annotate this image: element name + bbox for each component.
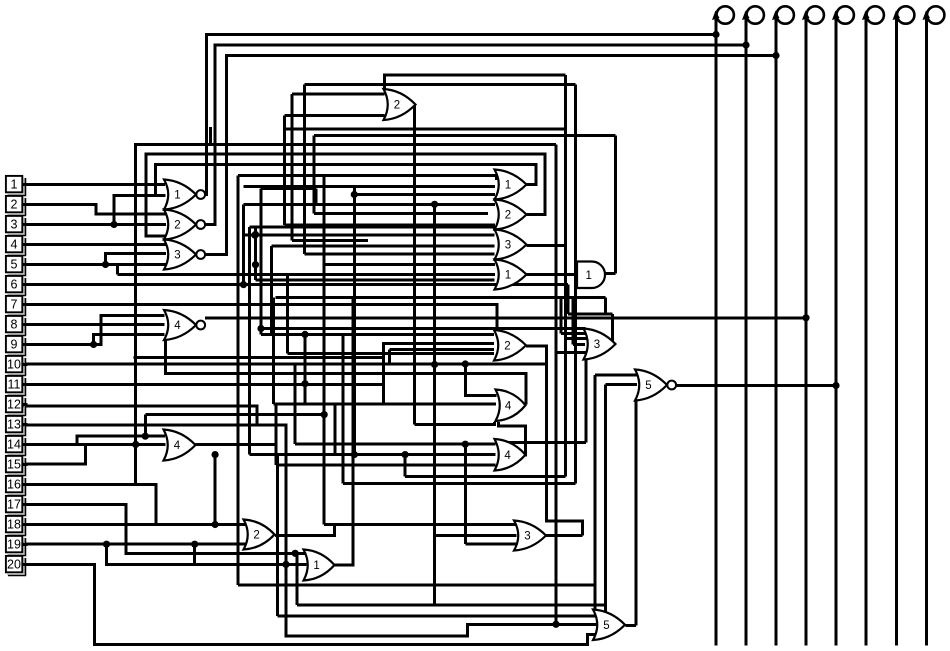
wire row to B2 d	[250, 225, 496, 228]
svg-text:15: 15	[7, 458, 21, 472]
input pin 14	[6, 436, 28, 456]
wire riser x255	[254, 227, 257, 280]
wire J3 input 3	[465, 542, 516, 545]
wire riser x292	[291, 94, 294, 241]
wire input 7 to OR2D top stub	[23, 305, 497, 330]
OR gate 5 bottom	[593, 610, 625, 641]
wire J3 input 1 row	[335, 523, 517, 526]
NOR gate 4 left bank	[164, 310, 205, 340]
svg-text:1: 1	[11, 178, 18, 192]
wire G4 output to F4 stub	[498, 422, 525, 457]
svg-text:3: 3	[524, 531, 530, 543]
wire input 17 to OR1b	[23, 505, 307, 554]
input pin 1	[6, 176, 28, 196]
wire NOR2 output to terminal 2	[205, 45, 746, 225]
svg-text:20: 20	[7, 558, 21, 572]
svg-text:6: 6	[11, 278, 18, 292]
svg-text:4: 4	[505, 400, 512, 412]
AND gate 1	[577, 262, 605, 289]
wire stub x210	[209, 127, 212, 144]
wire row y84	[305, 83, 576, 86]
svg-text:1: 1	[586, 270, 592, 282]
wire input 13 chain to OR5 input 4	[23, 425, 598, 636]
svg-text:2: 2	[394, 100, 400, 112]
wire riser x316	[315, 189, 318, 205]
wire riser x354	[353, 187, 356, 455]
input pin 13	[6, 416, 28, 436]
wire NOR5 input 2	[606, 383, 638, 386]
wire riser x275 lower	[274, 404, 277, 465]
svg-text:2: 2	[253, 530, 259, 542]
wire OR5 output	[626, 624, 637, 627]
wire A2 input 2	[285, 114, 385, 117]
wire input 18 to OR2b	[23, 523, 246, 526]
wire input 8 to NOR4	[23, 323, 165, 326]
junction riser x255 a	[252, 231, 259, 238]
junction OR1b input 1	[292, 550, 299, 557]
wire input 4 to NOR3	[23, 243, 166, 246]
wire riser x595 to OR5 stub	[594, 375, 597, 610]
wire row G4 input 1	[295, 443, 496, 446]
svg-text:1: 1	[174, 190, 180, 202]
junction row B2 at x434	[431, 201, 438, 208]
wire drop x465 to J3	[464, 444, 467, 544]
wire NOR5 bottom stub	[635, 400, 638, 626]
svg-text:18: 18	[7, 518, 21, 532]
junction row B3	[251, 232, 258, 239]
svg-text:10: 10	[7, 358, 21, 372]
svg-text:9: 9	[11, 338, 18, 352]
junction riser x261	[257, 325, 264, 332]
junction terminal 3	[772, 52, 779, 59]
OR gate 3 bank D	[584, 329, 616, 360]
wire row y144 to bus x135	[136, 145, 556, 485]
wire NOR4 output to terminal 4	[205, 316, 806, 319]
wire OR3D input 3	[573, 343, 585, 346]
junction terminal 1	[712, 31, 719, 38]
wire drop x215	[214, 455, 217, 525]
output terminal 5	[832, 6, 854, 645]
wire input 2 step to NOR2	[23, 205, 166, 215]
wire jog y314	[568, 312, 613, 315]
wire row to B4 b	[118, 273, 496, 276]
wire row to B1 a	[244, 185, 496, 188]
wire input 14 branch to OR4 input 1	[77, 436, 165, 444]
wire row to B2 a	[244, 203, 496, 206]
input pin 9	[6, 336, 28, 356]
junction input 11 at x305	[301, 380, 308, 387]
wire input 12 step	[23, 406, 257, 425]
wire row y476	[405, 475, 565, 478]
wire row y357	[134, 358, 384, 404]
wire link x389	[388, 349, 391, 364]
wire riser x314	[313, 136, 316, 214]
wire riser x243	[242, 204, 245, 284]
wire riser x304	[303, 85, 306, 254]
wire into OR3D input 2	[566, 337, 587, 340]
OR gate 2 bank B	[495, 200, 527, 230]
wire K1 output riser	[335, 297, 353, 565]
svg-text:1: 1	[505, 180, 511, 192]
input pin 10	[6, 356, 28, 376]
wire F4 input 1	[465, 364, 496, 395]
svg-text:16: 16	[7, 478, 21, 492]
NOR gate 1 left bank	[164, 180, 205, 210]
junction terminal 5	[832, 382, 839, 389]
wire input 20 chain to OR5 input 5	[23, 564, 598, 644]
junction x215 top	[212, 451, 219, 458]
input pin 16	[6, 476, 28, 496]
wire G4 top stub	[496, 440, 499, 443]
wire I2 output riser x324	[323, 175, 326, 525]
OR gate 1b bank B	[495, 260, 527, 290]
junction riser x255 b	[252, 261, 259, 268]
wire input 10	[23, 363, 547, 366]
wire J3 input 2 row	[435, 534, 517, 537]
svg-text:3: 3	[505, 240, 511, 252]
wire input 5 branch to NOR3	[106, 254, 167, 265]
wire riser x294	[293, 364, 296, 444]
wire OR3D input 1	[561, 332, 585, 335]
output terminal 7	[893, 6, 915, 645]
output terminal 6	[862, 6, 884, 645]
wire input 11 to OR2D in2	[23, 344, 494, 385]
wire input 19 branch to OR1b	[107, 544, 307, 564]
OR gate 3 bottom mid	[514, 521, 546, 551]
wire input 6	[23, 283, 568, 286]
wire input 15 step	[23, 444, 85, 464]
wire row to D2 in4	[287, 352, 493, 355]
OR gate 2 bottom left	[244, 520, 275, 550]
wire input 19 to OR2b	[23, 543, 246, 546]
wire drop x605 upper	[604, 297, 607, 314]
svg-text:12: 12	[7, 398, 21, 412]
wire F4 input 2 row	[274, 402, 496, 405]
wire input 9 branch to NOR4	[94, 335, 165, 345]
wire drop x605 lower	[604, 385, 607, 612]
junction terminal 4	[802, 314, 809, 321]
svg-text:5: 5	[645, 380, 651, 392]
wire input 3 branch to NOR1	[114, 196, 166, 225]
junction bus x135 on OR4 input	[132, 441, 139, 448]
wire input 9 step to NOR4	[23, 316, 165, 345]
wire NOR3 output to terminal 3	[205, 56, 776, 255]
wire drop x405	[404, 455, 407, 477]
input pin 2	[6, 196, 28, 216]
svg-text:1: 1	[313, 560, 319, 572]
OR gate 1 bottom	[304, 550, 335, 581]
wire OR3D bottom stub drop	[585, 360, 588, 443]
wire long left riser x238	[237, 176, 240, 586]
wire input 16 to OR2b	[23, 484, 246, 524]
input pin 18	[6, 516, 28, 536]
wire row G4 input 2	[250, 453, 496, 456]
wire A2 output drop	[413, 105, 416, 425]
wire AND1 output riser	[614, 136, 617, 274]
wire B1 output loop to NOR1	[156, 165, 536, 196]
output terminal 3	[772, 6, 794, 645]
input pin 15	[6, 456, 28, 476]
wire OR3D output riser	[611, 314, 614, 345]
svg-text:13: 13	[7, 418, 21, 432]
wire riser x261	[260, 189, 263, 335]
wire row to B2 c	[285, 224, 495, 227]
OR gate 2 top	[384, 89, 416, 120]
junction input 5 branch	[102, 261, 109, 268]
wire riser x568	[567, 285, 570, 314]
wire long row y616 to OR5 in3	[277, 615, 598, 618]
input pin 7	[6, 296, 28, 316]
junction G4 row a	[351, 451, 358, 458]
junction input 19 branch	[103, 541, 110, 548]
svg-text:4: 4	[504, 450, 511, 462]
wire input 14 to OR4	[23, 443, 166, 446]
wire riser x343	[342, 335, 345, 484]
wire long bus x556	[555, 145, 558, 625]
NOR gate 2 left bank	[164, 210, 205, 240]
wire bridge y188	[261, 187, 316, 190]
NOR gate 5	[635, 370, 676, 401]
input pin 3	[6, 216, 28, 236]
wire riser x572	[571, 297, 574, 344]
NOR gate 3 left bank	[164, 240, 205, 270]
output terminal 4	[802, 6, 824, 645]
wire riser x575	[574, 85, 577, 484]
wire input 1 to NOR1	[23, 183, 165, 186]
wire B2 output loop to NOR2	[146, 154, 545, 236]
junction input 19 second branch	[191, 541, 198, 548]
wire branch x117	[116, 265, 119, 275]
wire riser x271	[270, 246, 273, 335]
wire NOR1 output to terminal 1	[205, 35, 716, 195]
OR gate 3 bank B	[495, 230, 527, 260]
wire A2 top stub row y75	[385, 75, 566, 90]
svg-text:3: 3	[594, 339, 600, 351]
wire F4 output to NOR4 bottom stub	[166, 340, 527, 405]
wire B3 output	[527, 244, 566, 247]
svg-text:17: 17	[7, 498, 21, 512]
wire row y442 to G4 top stub	[498, 441, 587, 444]
wire input 3 to NOR2	[23, 223, 166, 226]
svg-text:19: 19	[7, 538, 21, 552]
wire OR4 output	[196, 443, 276, 446]
wire B4 output to AND1	[527, 273, 578, 276]
input pin 11	[6, 376, 28, 396]
junction on OR4 input row 1	[142, 433, 149, 440]
junction input 9	[90, 341, 97, 348]
wire AND1 output	[606, 272, 616, 275]
wire drop x277	[276, 455, 279, 617]
junction row D2 in1	[301, 331, 308, 338]
wire NOR5 output to terminal 5	[676, 384, 837, 387]
wire NOR5 input 1	[595, 374, 637, 377]
wire row to B1 b	[354, 193, 495, 196]
wire row to B4 a	[324, 263, 495, 266]
wire row to B3 a	[244, 234, 495, 237]
wire link x194	[193, 544, 196, 564]
svg-text:4: 4	[174, 320, 181, 332]
wire row to D2 in1	[261, 333, 494, 336]
svg-text:2: 2	[504, 340, 510, 352]
wire row G4 input 3	[276, 464, 496, 467]
OR gate 4 bank F	[496, 390, 526, 422]
junction input 18	[212, 521, 219, 528]
OR gate 2 bank D	[494, 330, 526, 361]
junction G4 input 1	[462, 441, 469, 448]
junction input 10 at x434	[431, 361, 438, 368]
junction row y414 at I2 riser	[321, 411, 328, 418]
wire drop x305	[304, 334, 307, 403]
svg-text:1: 1	[505, 270, 511, 282]
svg-text:2: 2	[11, 198, 18, 212]
wire row y253 to B3	[305, 252, 495, 255]
output terminal 1	[712, 6, 734, 645]
input pin 12	[6, 396, 28, 416]
wire row y175 to B1 top stub	[238, 176, 497, 181]
wire row to B4 c	[256, 279, 495, 282]
junction terminal 2	[742, 41, 749, 48]
input pin 19	[6, 536, 28, 556]
wire row to B3 b	[272, 244, 495, 247]
wire riser x561	[560, 297, 563, 333]
wire riser x273 upper	[272, 297, 275, 404]
wire row y135	[314, 134, 616, 137]
wire long bus x565	[564, 75, 567, 477]
input pin 5	[6, 256, 28, 276]
junction row B1 at x354	[351, 191, 358, 198]
wire long riser x434	[433, 204, 436, 605]
OR gate 4 bank G	[495, 439, 526, 471]
wire row y483	[343, 482, 576, 485]
junction input 13 at OR1 row	[282, 561, 289, 568]
wire row y414	[145, 413, 324, 416]
junction input 3 branch	[110, 221, 117, 228]
input pin 6	[6, 276, 28, 296]
junction input 10 at F4 riser	[462, 360, 469, 367]
svg-text:7: 7	[11, 298, 18, 312]
wire riser x284	[283, 115, 286, 225]
wire row y129	[285, 128, 567, 131]
svg-text:8: 8	[11, 318, 18, 332]
junction OR5 input 4	[552, 621, 559, 628]
input pin 20	[6, 556, 28, 576]
output terminal 8	[923, 6, 945, 645]
svg-text:5: 5	[603, 620, 609, 632]
svg-text:14: 14	[7, 438, 21, 452]
OR gate 4 left mid	[164, 430, 196, 461]
svg-text:2: 2	[174, 220, 180, 232]
wire row y297	[275, 296, 605, 299]
svg-text:4: 4	[11, 238, 18, 252]
wire drop x145	[144, 415, 147, 437]
input pin 4	[6, 236, 28, 256]
junction input 6 riser	[240, 281, 247, 288]
wire link x334	[333, 404, 336, 454]
svg-text:2: 2	[505, 210, 511, 222]
output terminal 2	[742, 6, 764, 645]
wire input 5 to NOR3	[23, 263, 166, 266]
wire riser x249	[248, 227, 251, 455]
wire row y213 to B2	[314, 212, 488, 215]
wire I2 output jog	[275, 524, 335, 535]
wire row to D2 in3	[389, 348, 493, 351]
svg-text:3: 3	[174, 250, 180, 262]
svg-text:4: 4	[174, 440, 181, 452]
wire long row y605	[297, 603, 606, 606]
input pin 17	[6, 496, 28, 516]
svg-text:5: 5	[11, 258, 18, 272]
input pin 8	[6, 316, 28, 336]
wire drop from OR1b dot	[295, 553, 298, 605]
wire J3 output	[546, 534, 582, 537]
wire OR3D top stub	[584, 329, 587, 334]
svg-text:3: 3	[11, 218, 18, 232]
wire D2 output chain	[526, 346, 583, 536]
svg-text:11: 11	[8, 378, 21, 392]
wire into OR3D input 4	[556, 351, 587, 354]
wire A2 input 1	[292, 93, 385, 96]
wire into F4 bottom stub	[415, 422, 495, 425]
junction G4 row b	[402, 451, 409, 458]
wire riser x287	[286, 275, 289, 354]
wire row y328 to OR3D top stub	[261, 327, 586, 330]
wire row y240	[292, 239, 368, 242]
OR gate 1 bank B	[495, 170, 527, 200]
wire row y585 to OR5	[238, 584, 595, 587]
